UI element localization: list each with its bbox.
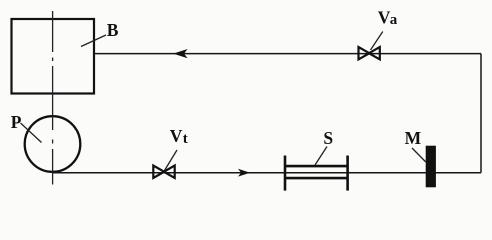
- svg-text:M: M: [405, 128, 422, 148]
- svg-text:P: P: [11, 112, 22, 132]
- svg-text:t: t: [183, 131, 188, 147]
- svg-text:a: a: [390, 12, 398, 28]
- svg-text:S: S: [323, 128, 333, 148]
- svg-text:V: V: [170, 126, 183, 146]
- svg-text:V: V: [378, 7, 391, 27]
- svg-text:B: B: [107, 20, 119, 40]
